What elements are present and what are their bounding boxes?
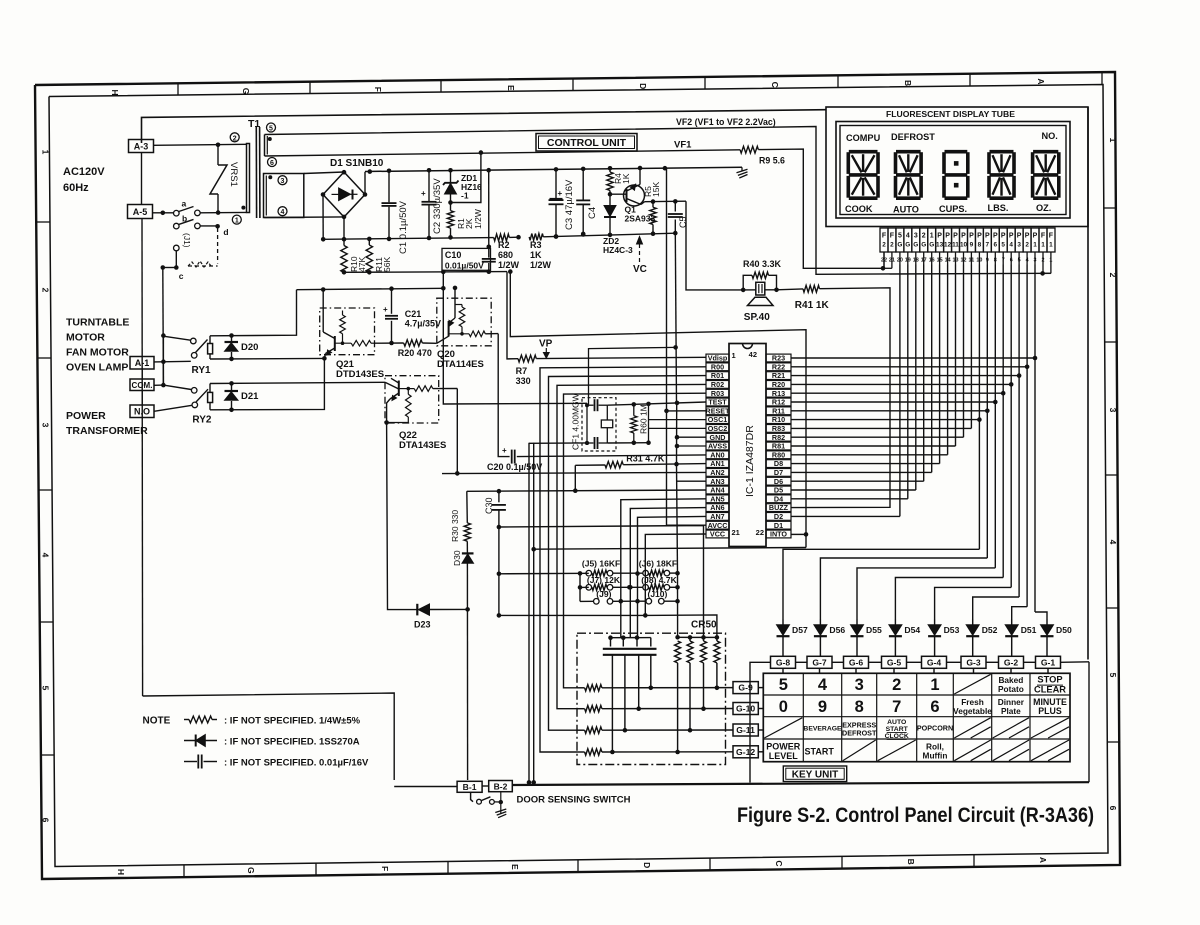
svg-text:AN0: AN0 <box>710 450 724 459</box>
jumper J7 12K <box>586 585 592 591</box>
wire CF1 ground riser <box>589 347 676 404</box>
svg-text:N.O: N.O <box>134 407 150 417</box>
svg-text:START: START <box>886 726 909 733</box>
wire G-10 to matrix <box>758 708 763 710</box>
door switch ground <box>500 792 502 814</box>
svg-text:R11: R11 <box>772 406 785 415</box>
svg-text:680: 680 <box>498 250 513 260</box>
diode D20 <box>231 336 233 342</box>
svg-text:C21: C21 <box>405 309 422 319</box>
svg-text:56K: 56K <box>382 257 392 272</box>
transistor Q21 box <box>320 308 375 355</box>
svg-text:G-2: G-2 <box>1004 658 1019 668</box>
capacitor C3 electrolytic <box>555 169 557 198</box>
svg-text:D50: D50 <box>1056 625 1072 635</box>
svg-text:Vdisp: Vdisp <box>708 354 728 363</box>
svg-text:G-6: G-6 <box>849 658 864 668</box>
svg-text:1: 1 <box>1041 242 1045 249</box>
control unit outline box <box>142 110 827 143</box>
svg-text:R12: R12 <box>772 398 785 407</box>
svg-text:COMPU: COMPU <box>846 133 881 143</box>
label KEY UNIT box <box>783 766 846 782</box>
T1 filament winding bar <box>264 135 266 157</box>
wire A-5 to switch <box>153 212 174 214</box>
svg-text:G: G <box>905 242 910 249</box>
svg-text:2: 2 <box>882 242 886 249</box>
resistor R11 56K <box>368 239 370 245</box>
svg-text:COOK: COOK <box>845 204 873 214</box>
T1 terminal 1 <box>232 215 241 224</box>
svg-text:G: G <box>246 867 256 874</box>
svg-text:(J8) 4.7K: (J8) 4.7K <box>641 575 677 585</box>
svg-text:E: E <box>506 85 516 91</box>
terminal G-6 <box>844 656 869 668</box>
svg-text:R20 470: R20 470 <box>398 348 432 358</box>
svg-text:R02: R02 <box>711 380 724 389</box>
svg-text:c: c <box>179 271 184 281</box>
wire R01 riser to G-11 <box>549 376 707 731</box>
svg-text:F: F <box>1049 233 1054 240</box>
svg-text:Figure S-2. Control Panel Circ: Figure S-2. Control Panel Circuit (R-3A3… <box>737 804 1094 827</box>
svg-text:R21: R21 <box>772 371 785 380</box>
IC left pin boxes <box>706 354 729 362</box>
svg-text:H: H <box>116 869 126 875</box>
svg-text:FLUORESCENT DISPLAY TUBE: FLUORESCENT DISPLAY TUBE <box>886 109 1015 119</box>
svg-text:AN5: AN5 <box>710 494 724 503</box>
svg-text:4: 4 <box>906 233 910 240</box>
svg-text:AN1: AN1 <box>710 459 724 468</box>
svg-text:AN7: AN7 <box>710 512 724 521</box>
svg-text:RESET: RESET <box>706 406 731 415</box>
svg-text:A: A <box>1038 857 1048 863</box>
svg-text:P: P <box>993 233 998 240</box>
svg-text:B-1: B-1 <box>463 782 477 792</box>
svg-text:3: 3 <box>855 676 864 694</box>
diode D30 <box>466 541 468 553</box>
svg-text:(J5) 16KF: (J5) 16KF <box>582 559 620 569</box>
svg-text:VC: VC <box>633 264 647 275</box>
terminal G-11 <box>733 724 758 736</box>
svg-text:4: 4 <box>1108 540 1118 545</box>
svg-text:G-11: G-11 <box>736 725 755 735</box>
display face box <box>840 126 1066 215</box>
wire top rail east end drop <box>666 168 668 525</box>
wire AVSS pin stub <box>677 445 706 447</box>
svg-text:CUPS.: CUPS. <box>939 204 967 214</box>
resistor R2 680 <box>494 234 510 241</box>
svg-text:0: 0 <box>779 698 788 716</box>
terminal G-8 <box>771 656 796 668</box>
switch J1 contact a <box>174 210 180 216</box>
svg-text:3: 3 <box>914 233 918 240</box>
svg-text:1/2W: 1/2W <box>498 260 520 270</box>
wire J7 to J8 <box>613 586 643 588</box>
IC right pin boxes <box>766 354 791 362</box>
wire G-9 to matrix <box>758 687 763 689</box>
CR50 dashed box <box>577 633 726 764</box>
CR50 row resistor G-12 <box>577 751 585 753</box>
border zone ticks left <box>36 221 50 223</box>
svg-text:2: 2 <box>922 233 926 240</box>
diode D50 <box>1046 619 1048 625</box>
svg-text:4: 4 <box>41 553 51 558</box>
node d dashed <box>217 228 219 264</box>
svg-text:5: 5 <box>1001 242 1005 249</box>
door switch contacts <box>471 792 473 801</box>
jumper J10 open <box>646 598 652 604</box>
wire AN1 node down to jumpers <box>677 464 678 573</box>
svg-text:RY1: RY1 <box>192 365 212 376</box>
CR50 pull-up resistor 1 <box>675 635 680 640</box>
wire TEST line to C10 node <box>443 288 706 403</box>
wire CF1 ground line <box>529 442 587 444</box>
svg-text:C30: C30 <box>484 497 494 514</box>
svg-text:RY2: RY2 <box>192 415 212 426</box>
diode D55 <box>856 619 858 625</box>
svg-text:KEY UNIT: KEY UNIT <box>792 770 839 781</box>
svg-text:P: P <box>977 233 982 240</box>
resistor R7 330 on VP line <box>518 355 536 362</box>
svg-text:D7: D7 <box>774 468 783 477</box>
wire N.O to RY2 <box>154 405 192 411</box>
svg-text:0.01µ/50V: 0.01µ/50V <box>445 261 484 271</box>
border frame outer <box>35 72 1120 879</box>
terminal G-3 <box>961 656 986 668</box>
svg-text:b: b <box>182 214 187 224</box>
bridge rectifier D1 <box>323 172 365 217</box>
svg-text:AUTO: AUTO <box>887 719 906 726</box>
svg-text:D: D <box>638 83 648 89</box>
wire OSC2 pin loop <box>649 427 707 429</box>
svg-text:AN4: AN4 <box>710 486 724 495</box>
svg-text:CLEAR: CLEAR <box>1034 685 1066 695</box>
svg-text:VP: VP <box>539 339 553 350</box>
svg-text:2: 2 <box>890 242 894 249</box>
transistor Q20 <box>448 321 450 337</box>
display digit 5 <box>1033 150 1058 154</box>
svg-text:1K: 1K <box>621 173 631 184</box>
terminal N.O <box>130 405 154 418</box>
svg-text:DEFROST: DEFROST <box>891 132 935 142</box>
wire relay supply rail <box>297 288 444 289</box>
svg-text:1: 1 <box>930 233 934 240</box>
svg-text:1: 1 <box>235 218 239 225</box>
terminal G-4 <box>922 656 947 668</box>
wire AN4 C30 line <box>467 490 706 491</box>
wire terminal bus <box>141 369 143 380</box>
terminal G-12 <box>733 746 758 758</box>
svg-text:R10: R10 <box>772 415 785 424</box>
display grid and anode drop wires <box>899 265 901 517</box>
wire RESET line <box>667 410 707 412</box>
svg-text:C1 0.1µ/50V: C1 0.1µ/50V <box>398 200 409 254</box>
svg-text:Muffin: Muffin <box>923 750 948 760</box>
svg-text:+: + <box>421 189 426 198</box>
svg-text:E: E <box>510 864 520 870</box>
T1 core <box>255 127 257 218</box>
svg-text:C2 330µ/35V: C2 330µ/35V <box>432 178 443 234</box>
CR50 capacitor plates <box>603 648 657 650</box>
down staircase wires to key diodes <box>783 549 979 619</box>
key matrix box <box>763 673 1070 761</box>
svg-text:G-3: G-3 <box>966 658 981 668</box>
svg-text:B: B <box>906 859 916 865</box>
wire OSC1 line <box>607 402 706 405</box>
wire G-8 bus west drop <box>750 662 771 782</box>
svg-text:B: B <box>903 80 913 86</box>
svg-text:T1: T1 <box>248 118 260 130</box>
svg-text:G-9: G-9 <box>738 683 753 693</box>
svg-text:TEST: TEST <box>708 398 727 407</box>
svg-text:AVCC: AVCC <box>708 521 728 530</box>
terminal B-2 <box>489 781 513 792</box>
wire R02 riser to G-10 <box>557 384 706 708</box>
svg-text:P: P <box>1025 233 1030 240</box>
svg-text:P: P <box>937 233 942 240</box>
svg-text:G-5: G-5 <box>887 658 902 668</box>
svg-text:P: P <box>1001 233 1006 240</box>
svg-text:1: 1 <box>930 676 939 694</box>
wire relay feed vertical <box>162 336 164 386</box>
svg-text:TURNTABLE: TURNTABLE <box>66 317 129 329</box>
CF1 dashed box <box>582 398 616 451</box>
resistor R9 <box>740 146 758 153</box>
label box C10 <box>442 248 491 270</box>
svg-text:G-7: G-7 <box>812 658 827 668</box>
svg-text:R81: R81 <box>772 442 785 451</box>
IC-1 body <box>729 344 766 547</box>
T1 terminal 4 <box>278 207 287 216</box>
wire VF2 <box>265 127 1051 275</box>
svg-text:VRS1: VRS1 <box>228 162 239 187</box>
display tube outer box <box>826 107 1088 110</box>
svg-text:: IF NOT SPECIFIED. 1/4W±5%: : IF NOT SPECIFIED. 1/4W±5% <box>224 716 361 727</box>
svg-text:6: 6 <box>270 160 274 167</box>
svg-text:R3: R3 <box>530 240 542 250</box>
svg-text:R7: R7 <box>516 366 528 376</box>
diode D23 <box>416 604 418 616</box>
svg-text:P: P <box>1033 233 1038 240</box>
svg-text:3: 3 <box>41 423 51 428</box>
svg-text:5: 5 <box>898 233 902 240</box>
wire bridge plus to rail <box>364 172 366 195</box>
svg-text:8: 8 <box>855 698 864 716</box>
svg-text:G-1: G-1 <box>1041 658 1056 668</box>
wire c down to relay area <box>162 268 165 386</box>
wire AN6 drop <box>630 508 706 638</box>
svg-text:FAN MOTOR: FAN MOTOR <box>66 347 129 359</box>
svg-text:-1: -1 <box>461 191 469 201</box>
wire R10 R11 bottom rail <box>344 271 507 274</box>
transistor Q22 box <box>385 376 439 423</box>
display pin2 pin1 join <box>1043 272 1051 274</box>
display digit 4 <box>990 150 1014 154</box>
svg-text:R22: R22 <box>772 362 785 371</box>
svg-text:POPCORN: POPCORN <box>917 723 953 732</box>
wire Q20 to C20 <box>498 334 509 457</box>
resistor R10 47K <box>343 239 345 245</box>
wire RY2 coil top rail to Q22 <box>210 382 385 383</box>
terminal G-2 <box>999 656 1024 668</box>
svg-text:R60 1M: R60 1M <box>639 404 649 434</box>
svg-text:C3 47µ/16V: C3 47µ/16V <box>564 179 575 230</box>
key matrix grid <box>802 673 804 761</box>
IC output wires to display columns <box>791 357 1035 359</box>
svg-text:D: D <box>642 862 652 868</box>
svg-text:P: P <box>1009 233 1014 240</box>
svg-text:1: 1 <box>1049 242 1053 249</box>
svg-text:13: 13 <box>936 242 944 249</box>
svg-text:F: F <box>882 233 887 240</box>
wire G-5 to matrix <box>893 668 895 673</box>
terminal A-3 <box>129 140 154 153</box>
legend diode symbol <box>184 740 217 742</box>
svg-text:D1: D1 <box>774 521 783 530</box>
svg-text:(J7) 12K: (J7) 12K <box>587 575 621 585</box>
svg-text:G-4: G-4 <box>927 658 942 668</box>
capacitor C4 <box>582 169 584 200</box>
svg-text:(J6) 18KF: (J6) 18KF <box>639 559 677 569</box>
wire Q1 collector east <box>645 200 687 203</box>
wire GND pin stub <box>677 436 706 438</box>
svg-text:D54: D54 <box>904 625 920 635</box>
svg-text:8: 8 <box>978 242 982 249</box>
svg-text:2: 2 <box>1025 242 1029 249</box>
wire bottom power rail <box>323 238 494 240</box>
transistor Q22 <box>398 381 400 397</box>
diode D53 <box>934 619 936 625</box>
svg-text:22: 22 <box>756 528 764 537</box>
svg-text:3: 3 <box>1108 408 1118 413</box>
svg-text:3: 3 <box>281 178 285 185</box>
resistor R1 2K <box>450 194 452 211</box>
svg-text:2: 2 <box>41 288 51 293</box>
Q20 internal resistor horizontal <box>449 333 469 335</box>
relay RY2 coil <box>208 392 213 402</box>
svg-text:R80: R80 <box>772 450 785 459</box>
zener ZD1 <box>450 170 452 182</box>
svg-text:D30: D30 <box>452 550 462 566</box>
svg-text:(J10): (J10) <box>648 589 668 599</box>
jumper J8 4.7K <box>643 585 649 591</box>
CR50 row resistor G-11 <box>577 729 585 731</box>
wire AN1 node to CR50 <box>677 573 679 637</box>
diode D51 <box>1011 619 1013 625</box>
relay RY1 contacts <box>191 338 197 344</box>
wire c junction <box>163 267 177 269</box>
svg-text:2: 2 <box>892 676 901 694</box>
wire J5 to J6 <box>613 572 643 574</box>
svg-text:12: 12 <box>944 242 952 249</box>
wire VCC loop <box>499 534 706 615</box>
svg-text:INTO: INTO <box>770 530 787 539</box>
wire OSC2 line <box>607 442 648 444</box>
svg-text:15K: 15K <box>651 182 661 197</box>
svg-text:CR50: CR50 <box>691 620 717 631</box>
Q21 internal resistor vertical <box>342 311 344 316</box>
wire R03 riser to G-9 <box>564 393 707 688</box>
CR50 pull-up resistor 4 <box>704 636 717 638</box>
svg-text:1: 1 <box>732 351 736 360</box>
CR50 cap drop wires <box>611 655 613 752</box>
svg-text:P: P <box>969 233 974 240</box>
wire G-3 to matrix <box>973 668 975 673</box>
svg-text:OZ.: OZ. <box>1036 203 1051 213</box>
svg-text:6: 6 <box>930 698 939 716</box>
wire rail2 <box>690 636 704 638</box>
wire G-12 to matrix <box>758 751 763 753</box>
display digit 2 <box>896 150 921 154</box>
svg-text:AUTO: AUTO <box>893 205 919 215</box>
svg-text:42: 42 <box>749 350 757 359</box>
svg-text:G: G <box>913 242 918 249</box>
CF1 left vertical <box>586 405 588 443</box>
resistor R5 15K <box>652 202 654 208</box>
svg-text:3: 3 <box>1017 242 1021 249</box>
resistor R40 3.3K parallel <box>743 275 752 290</box>
legend capacitor symbol <box>184 761 197 763</box>
diode D57 <box>782 619 784 625</box>
svg-text:D55: D55 <box>866 625 882 635</box>
svg-text:d: d <box>223 227 228 237</box>
svg-text:6: 6 <box>1108 806 1118 811</box>
wire AN2 <box>442 472 706 473</box>
svg-text:5: 5 <box>779 676 788 694</box>
resistor R31 4.7K on AN1 <box>575 464 605 466</box>
wire RY1 coil top rail <box>210 290 297 336</box>
wire RY1 bottom rail to Q21 emitter <box>210 357 324 360</box>
terminal A-1 <box>130 357 154 370</box>
wire G-11 to matrix <box>758 729 763 731</box>
wire A-3 to A-5 vertical <box>141 153 143 205</box>
svg-text:COM.: COM. <box>132 381 153 390</box>
T1 terminal 2 <box>230 133 239 142</box>
wire G-2 to matrix <box>1010 668 1012 673</box>
diode D21 <box>231 383 233 390</box>
svg-text:R40 3.3K: R40 3.3K <box>743 259 782 269</box>
svg-text:R23: R23 <box>772 354 785 363</box>
wire Q22 to AN2 line <box>456 389 458 474</box>
wire B-1 to B-2 link <box>482 785 489 787</box>
svg-text:LEVEL: LEVEL <box>769 751 799 761</box>
wire G-8 to matrix <box>782 668 784 673</box>
svg-text:R30 330: R30 330 <box>450 510 460 542</box>
svg-text:4: 4 <box>1009 242 1013 249</box>
svg-text:R00: R00 <box>711 362 724 371</box>
svg-text:5: 5 <box>269 126 273 133</box>
svg-text:1: 1 <box>41 150 51 155</box>
wire left bus bottom <box>143 693 395 780</box>
capacitor C30 <box>498 491 500 502</box>
wire AVCC <box>667 524 707 526</box>
terminal G-1 <box>1036 656 1061 668</box>
wire T1-3 to bridge <box>304 172 344 174</box>
CR50 row resistor G-10 <box>577 708 585 710</box>
svg-text:(J1): (J1) <box>182 233 192 248</box>
svg-text:D52: D52 <box>982 625 998 635</box>
wire R00 riser to G-12 <box>540 367 706 752</box>
wire G-7 to matrix <box>819 668 821 673</box>
wire R41 to BUZZ <box>791 288 890 508</box>
svg-text:VF2 (VF1 to VF2 2.2Vac): VF2 (VF1 to VF2 2.2Vac) <box>676 117 776 127</box>
wire Q1 output down to speaker line <box>686 201 743 290</box>
wire speaker node <box>743 289 776 291</box>
svg-text:G: G <box>921 242 926 249</box>
svg-text:CF1 4.00MGW: CF1 4.00MGW <box>571 393 581 450</box>
svg-text:R01: R01 <box>711 371 724 380</box>
svg-text:B-2: B-2 <box>494 781 508 791</box>
svg-text:D20: D20 <box>241 342 258 353</box>
